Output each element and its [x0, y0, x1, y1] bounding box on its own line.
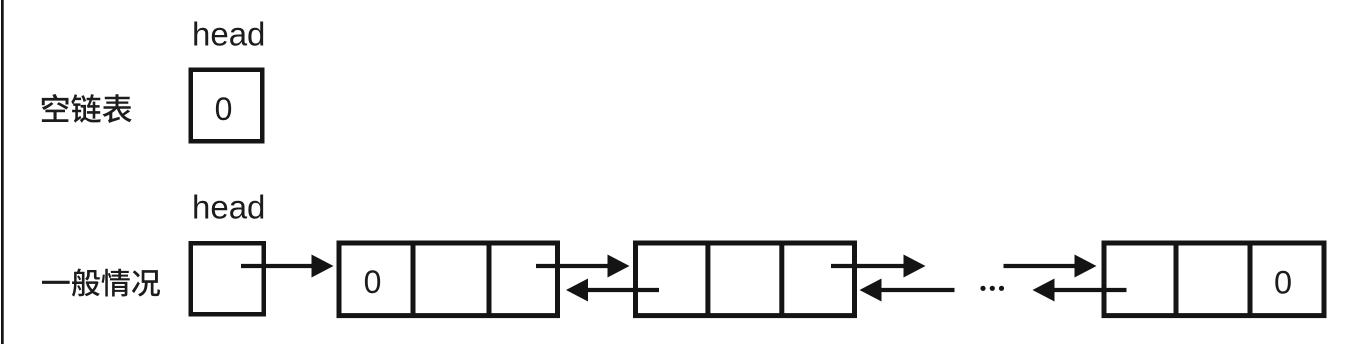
label 一般情况: [42, 269, 160, 297]
svg-text:0: 0: [1274, 265, 1292, 301]
prev-pointer arrow N3 to ellipsis: [1033, 279, 1127, 302]
svg-text:head: head: [192, 189, 265, 226]
node N1 cell divider 1: [411, 241, 416, 318]
node N2 box: [636, 243, 855, 316]
label 空链表: [42, 94, 132, 123]
svg-text:0: 0: [215, 91, 233, 127]
node N1 box: [339, 243, 558, 316]
svg-text:head: head: [192, 16, 265, 53]
node N1 cell divider 2: [487, 241, 492, 318]
next-pointer arrow H1 to N1: [241, 255, 334, 278]
next-pointer arrow N1 to N2: [536, 255, 630, 278]
prev-pointer arrow ellipsis to N2: [860, 279, 955, 302]
next-pointer arrow N2 to ellipsis: [831, 255, 926, 278]
page left border: [1, 0, 4, 344]
label char 况: [132, 270, 160, 296]
node N2 cell divider 1: [705, 241, 710, 318]
node N3 cell divider 1: [1174, 241, 1179, 318]
ellipsis dots: [980, 286, 1004, 291]
next-pointer arrow ellipsis to N3: [1004, 255, 1097, 278]
label char 空: [42, 94, 69, 122]
node N3 cell divider 2: [1248, 241, 1253, 318]
head box H0 (empty list): [191, 70, 263, 142]
label char 链: [71, 94, 101, 123]
node N3 box: [1104, 243, 1324, 316]
svg-text:0: 0: [364, 264, 382, 300]
prev-pointer arrow N2 to N1: [566, 279, 659, 302]
node N2 cell divider 2: [779, 241, 784, 318]
label char 表: [103, 94, 132, 123]
label char 一: [42, 281, 70, 284]
label char 情: [102, 269, 130, 297]
label char 般: [72, 269, 100, 297]
head box H1 (general case): [191, 243, 264, 314]
